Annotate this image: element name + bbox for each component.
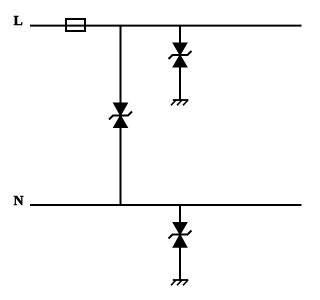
wire vertical from L rail to ground at x=180	[179, 26, 181, 101]
svg-text:N: N	[14, 194, 24, 209]
TVS diode D3 (N to ground)	[169, 223, 192, 248]
TVS diode D1 (between L and N)	[109, 103, 132, 128]
ground G1 (chassis ground under D2)	[171, 100, 188, 105]
wire N line (bottom rail)	[30, 204, 302, 206]
ground G2 (chassis ground under D3)	[171, 280, 188, 285]
wire vertical from L rail to N rail at x=120.5	[120, 26, 122, 206]
svg-text:L: L	[14, 14, 23, 29]
wire vertical from N rail to ground at x=180	[179, 205, 181, 280]
fuse F1	[66, 19, 85, 31]
wire L line (top rail)	[30, 25, 302, 27]
TVS diode D2 (L to ground)	[169, 43, 192, 67]
